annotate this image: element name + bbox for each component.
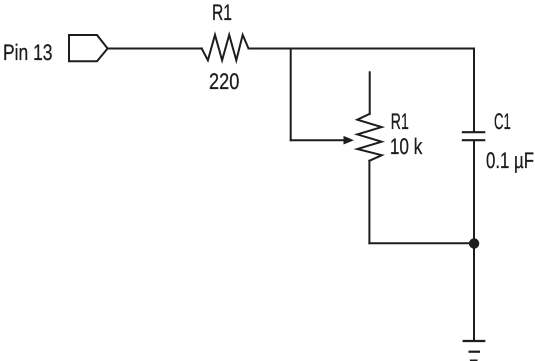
wire xyxy=(368,161,370,244)
svg-text:220: 220 xyxy=(209,69,239,94)
wire xyxy=(290,49,292,141)
wire xyxy=(108,48,202,50)
ground xyxy=(464,341,485,361)
svg-text:Pin 13: Pin 13 xyxy=(3,40,53,65)
svg-text:10 k: 10 k xyxy=(390,134,423,159)
wire xyxy=(369,242,474,244)
wire xyxy=(473,141,475,341)
svg-text:R1: R1 xyxy=(391,109,409,134)
wiper arrow xyxy=(344,136,355,145)
svg-text:C1: C1 xyxy=(494,109,511,134)
connector tag Pin 13 xyxy=(69,35,108,61)
wire xyxy=(369,72,371,114)
svg-text:R1: R1 xyxy=(212,0,232,25)
resistor R1 xyxy=(202,35,249,60)
wire xyxy=(249,48,475,50)
junction xyxy=(469,238,479,248)
svg-text:0.1 µF: 0.1 µF xyxy=(486,148,534,173)
wire xyxy=(473,49,475,132)
wire xyxy=(291,139,345,141)
potentiometer R1 xyxy=(357,114,382,161)
capacitor C1 xyxy=(463,132,484,140)
